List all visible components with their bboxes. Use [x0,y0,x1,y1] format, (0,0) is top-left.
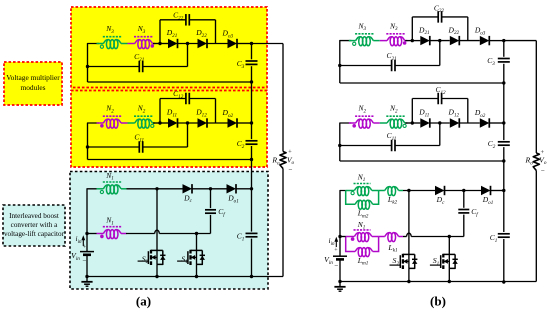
dashed coupling line over b-module2 second winding [386,115,405,117]
capacitor C22 top wire [160,19,186,21]
stack wire (b): series capacitor string C3-C2-C1 [503,41,505,57]
node b-module2 winding output [411,121,414,124]
capacitor C22 right vertical [215,20,217,44]
node (b) green row to S2 drain [407,189,410,192]
dashed coupling line over a-module2 second winding [134,115,153,117]
diode Dc (b) [435,186,445,195]
diode D11 [168,118,178,127]
svg-text:(b): (b) [430,294,446,309]
cyan highlight box: interleaved boost converter [70,172,268,290]
dashed coupling line over a-module2 first winding [103,115,122,117]
MOSFET S2 (b) [403,253,415,255]
node a-module2 mid junction (to C11) [186,121,189,124]
svg-text:Interleaved boost: Interleaved boost [9,212,59,220]
node b-module3 output on stack wire [502,39,505,42]
svg-text:+: + [540,149,544,156]
stack wire (a): series capacitor string C3-C2-C1 [251,44,253,60]
svg-text:−: − [289,165,293,173]
wire between a-module3 windings [121,43,128,45]
winding b-module2 first (coupled inductor winding N2) [349,122,356,124]
input current arrow i_in (a) [82,239,84,247]
node a-module2 C-row junction on left vertical [86,145,89,148]
diode D12 [450,118,460,127]
dashed coupling line over b-module3 second winding [386,33,405,35]
node C2 bottom on rail (a) [250,158,253,161]
MOSFET S1 (b) [443,253,455,255]
wire a-module2 D to D [207,122,228,124]
capacitor C22 [437,11,439,23]
polarity mark of b-module3 second winding [403,41,407,45]
wire between b-module3 windings [373,40,380,42]
wire C11 row [340,145,392,147]
yellow highlight box: top voltage multiplier module [71,7,267,88]
capacitor C12 [185,93,187,105]
winding a-module3 first (coupled inductor winding N3) [97,43,104,45]
wire: a-module2 left vertical and input lead [88,123,100,160]
wire b-module3 between diodes [430,40,450,42]
diode Do2 [480,118,490,127]
wire (a) S2 drain vertical [156,189,158,251]
wire b-module2 between diodes [430,122,450,124]
wire (b) S2 drain vertical [408,191,410,255]
node b-module2 output on stack wire [502,121,505,124]
node stack/rail junction bottom (a) [250,275,253,278]
node C3 bottom on rail (b) [502,81,505,84]
capacitor C1 (a) [246,232,258,234]
capacitor C12 top wire [412,98,438,100]
polarity mark of b-module3 first winding [353,42,356,45]
voltage source Vin (a) [86,234,88,252]
capacitor C22 right vertical [467,17,469,41]
wire between a-module2 windings [121,122,128,124]
wire resistor bottom to rail (b) [535,171,537,282]
wire S1 drain vertical (a) [196,234,198,251]
wire C21 row [340,65,392,67]
wire a-module2 output diode to stack node [237,122,252,124]
diode D22 [198,39,208,48]
capacitor C22 loop left vertical [159,20,161,44]
capacitor C2 (b) [498,141,510,143]
wire: b-module2 bottom rail [340,160,504,162]
magnetizing inductance Lm2 loop (b) [346,191,356,205]
wire S1 drain vertical (b) [448,237,450,255]
wire: a-module2 bottom rail [88,159,252,161]
wire (b) green row to Dc [403,190,435,192]
wire a-module3 winding output node to diode D21 [153,43,168,45]
dashed coupling line green winding (a) [103,181,122,183]
polarity mark of a-module3 first winding [100,45,103,48]
magnetizing inductance Lm1 loop (b) [346,237,356,252]
resistor Ro load (b) [533,153,539,171]
capacitor C2 (a) [246,140,258,142]
node S2 source on rail (a) [155,275,158,278]
polarity mark magenta winding (a) [100,235,104,239]
dashed coupling line over a-module3 first winding [103,36,122,38]
capacitor C3 (b) [498,58,510,60]
wire a-module3 output diode to stack node [237,43,252,45]
wire Dc cathode to Cf node (a) [192,188,227,190]
wire: b-module3 bottom rail [340,82,504,84]
diode D21 [168,39,178,48]
svg-text:+: + [288,149,292,156]
winding b-module3 second (coupled inductor winding N3) [390,37,394,46]
capacitor C12 right vertical [467,99,469,124]
winding a-module2 first (coupled inductor winding N2) [97,122,104,124]
polarity mark green winding (a) [100,190,103,193]
wire S1 source to rail (b) [448,268,450,281]
node (b) boost output on stack wire [502,189,505,192]
node b-module2 C-row junction on left vertical [338,144,341,147]
wire b-module3 D to D [459,40,480,42]
load branch wire (a): from Do3 node down right side [252,43,284,45]
node S2 source on rail (b) [407,280,410,283]
wire: b-module2 left vertical and input lead [340,123,352,161]
node S1 source on rail (b) [448,280,451,283]
wire b-module2 D to D [459,122,480,124]
capacitor C11 [138,141,140,153]
wire Do1 cathode to stack node (a) [236,188,252,190]
wire b-module2 output diode to stack node [489,122,504,124]
node a-module3 mid junction (to C21) [186,42,189,45]
node (a) magenta row at left vertical [85,232,88,235]
winding N1 magenta (b) with magnetizing branch [346,236,355,238]
polarity mark green winding (b) [351,192,354,195]
wire S1 source to rail (a) [196,264,198,276]
node b-module3 winding output [411,39,414,42]
svg-text:(a): (a) [136,294,151,309]
legend box: Voltage multiplier modules [4,62,62,105]
bottom rail (b) [340,281,536,283]
node a-module3 winding output [158,42,161,45]
node a-module2 output on stack wire [250,121,253,124]
wire b-module3 mid junction down to C21 row [439,41,441,66]
svg-text:Voltage multiplier: Voltage multiplier [6,73,60,82]
wire S2 source to rail (a) [156,264,158,276]
svg-text:−: − [334,261,338,269]
wire b-module3 output diode to stack node [489,40,504,42]
capacitor C3 (a) [246,60,258,62]
capacitor C12 top wire [160,98,186,100]
wire: a-module3 bottom rail [88,81,252,83]
yellow highlight underlay for both voltage multiplier modules [71,7,267,167]
node S1 drain on magenta row (a) [195,232,198,235]
node stack/rail junction bottom (b) [502,280,505,283]
capacitor C21 [391,60,393,72]
node (a) green row to S2 drain [155,187,158,190]
wire a-module2 mid junction down to C11 row [187,123,189,147]
dashed coupling line over b-module2 first winding [355,115,374,117]
dashed coupling line over b-module3 first winding [355,33,374,35]
capacitor C12 right vertical [215,99,217,124]
winding a-module3 second (coupled inductor winding N3) [138,40,142,49]
diode Dc (a) [183,184,193,193]
svg-text:converter with a: converter with a [11,221,59,229]
capacitor C12 loop left vertical [411,99,413,124]
wire a-module3 mid junction down to C21 row [187,44,189,67]
MOSFET S2 (a) [151,249,163,251]
svg-text:voltage-lift capacitor: voltage-lift capacitor [4,230,65,238]
wire (b) boost: left vertical [340,191,346,237]
input current arrow i_in (b) [335,240,337,247]
capacitor C11 [391,140,393,152]
wire C11 row [88,146,140,148]
svg-text:modules: modules [20,83,45,92]
dashed coupling line magenta winding (b) [354,229,371,231]
MOSFET S1 (a) [191,249,203,251]
wire: a-module3 left vertical and input lead [88,44,100,83]
load branch wire (b) [504,40,537,42]
node C2 bottom on rail (b) [502,159,505,162]
wire Dc cathode to Cf node (b) [445,190,482,192]
node Cf top (b) [462,189,465,192]
node b-module3 C-row junction on left vertical [338,64,341,67]
wire between b-module2 windings [373,122,380,124]
capacitor C22 loop left vertical [411,17,413,41]
wire a-module3 D to D [207,43,228,45]
diode Do3 [480,36,490,45]
node S1 drain on magenta row (b) [448,235,451,238]
node a-module2 winding output [158,121,161,124]
wire: b-module3 left vertical and input lead [340,41,352,83]
wire (a) magenta row with hop over S2 drain wire [87,233,97,235]
polarity mark of a-module2 second winding [151,124,154,127]
diode Do1 (b) [481,186,491,195]
node S1 source on rail (a) [195,275,198,278]
dashed coupling line over a-module3 second winding [134,36,153,38]
wire C21 row [88,66,140,68]
winding b-module2 second (coupled inductor winding N2) [390,119,394,128]
wire S2 source to rail (b) [408,268,410,281]
node a-module3 C-row junction on left vertical [86,65,89,68]
polarity mark of b-module2 second winding [403,124,406,127]
dashed coupling line magenta winding (a) [103,226,122,228]
wire b-module2 mid junction down to C11 row [439,123,441,146]
leakage inductance Lk1 (b) [379,236,385,238]
svg-text:−: − [541,166,545,174]
wire resistor bottom to rail (a) [282,169,284,277]
wire (b) magenta row with hop over S2 drain wire [340,236,346,238]
winding N1 green (b) with magnetizing branch [346,190,355,192]
ground symbol (b) [339,282,341,287]
capacitor Cf branch (b) [463,191,465,208]
capacitor C22 [185,14,187,25]
node C3 bottom on rail (a) [250,80,253,83]
node b-module2 mid junction (to C11) [438,121,441,124]
diode D21 [420,36,430,45]
leakage inductance Lk2 (b) [379,190,385,192]
diode D12 [198,118,208,127]
diode D11 [420,118,430,127]
capacitor C22 top wire [412,16,438,18]
polarity mark of b-module2 first winding [352,124,356,128]
wire Do1 cathode to stack node (b) [491,190,504,192]
wire (a) boost: left vertical from green winding down to source [87,189,97,234]
winding N1 green (a boost phase 2) [97,188,104,190]
voltage source Vin (b) [339,237,341,257]
node (a) boost output on stack wire [250,187,253,190]
polarity mark of a-module2 first winding [100,124,104,128]
bottom rail (a) [87,276,283,278]
winding a-module2 second (coupled inductor winding N2) [138,119,142,128]
wire a-module3 between diodes [178,43,198,45]
winding N1 magenta (a boost phase 1) [106,230,110,239]
node (b) magenta row at left vertical [338,235,341,238]
winding b-module3 first (coupled inductor winding N3) [349,40,356,42]
legend box: Interleaved boost converter with a voltage-lift capacitor [3,205,65,246]
resistor Ro load (a) [280,152,286,169]
yellow highlight box: second voltage multiplier module [71,91,267,168]
diode Do1 (a) [227,184,237,193]
capacitor C12 loop left vertical [159,99,161,124]
dashed coupling line green winding (b) [354,183,371,185]
node Cf top (a) [209,187,212,190]
wire b-module2 winding output node to diode D11 [405,122,420,124]
capacitor C1 (b) [498,233,510,235]
diode Do2 [228,118,238,127]
capacitor C12 [437,93,439,105]
node b-module3 mid junction (to C21) [438,39,441,42]
polarity mark of a-module3 second winding [151,44,155,48]
capacitor C21 [138,61,140,73]
node a-module3 output on stack wire [250,42,253,45]
wire b-module3 winding output node to diode D21 [405,40,420,42]
wire a-module2 between diodes [178,122,198,124]
wire a-module2 winding output node to diode D11 [153,122,168,124]
ground symbol (a) [86,277,88,282]
wire (a) green row to D_c [126,188,183,190]
diode Do3 [228,39,238,48]
polarity mark magenta winding (b) [351,237,355,241]
diode D22 [450,36,460,45]
capacitor Cf branch (a) [210,189,212,208]
svg-text:−: − [83,257,87,265]
